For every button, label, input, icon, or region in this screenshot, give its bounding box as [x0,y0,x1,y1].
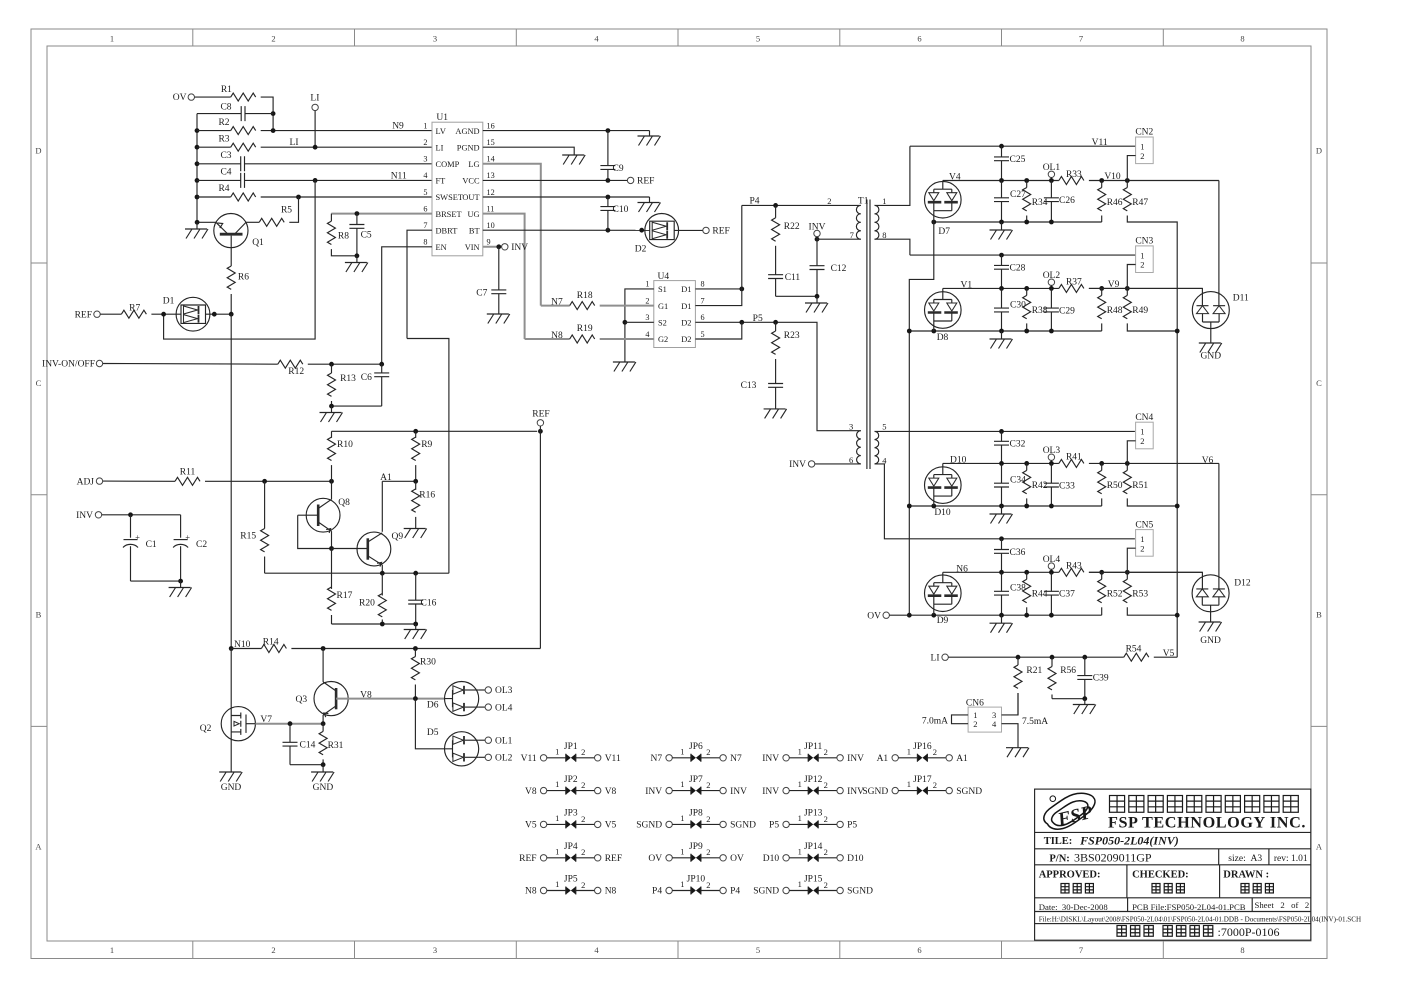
svg-text:6: 6 [423,204,427,213]
svg-text:SGND: SGND [956,787,982,797]
svg-text:2: 2 [1140,436,1144,446]
node cap C32 top [999,429,1004,434]
svg-text:1: 1 [555,779,559,789]
svg-text:GND: GND [1200,636,1221,646]
resistor R13 [331,364,333,373]
wire U4 S1 to ground leg [625,289,654,362]
svg-text:CN4: CN4 [1135,413,1153,423]
node R42 bottom [1024,504,1029,509]
node C14 top [288,721,293,726]
node right bus 2 [1175,504,1180,509]
node R47 top [1125,178,1130,183]
wire U1 EN from below [382,247,432,364]
wire C14 bottom to R31 [290,764,323,766]
svg-text:U1: U1 [436,113,448,123]
svg-text:C13: C13 [741,381,757,391]
REF rail above Q8 [332,430,538,432]
wire U1 BT pin10 row [483,229,650,231]
capacitor C8 [197,113,241,115]
svg-text:C3: C3 [220,151,231,161]
svg-text::7000P-0106: :7000P-0106 [1218,925,1280,939]
svg-text:N8: N8 [605,887,617,897]
svg-text:1: 1 [110,945,114,955]
resistor R33 in mid row [1059,177,1084,185]
node R52 top [1099,570,1104,575]
node R46 top [1099,178,1104,183]
svg-text:1: 1 [680,813,684,823]
svg-text:JP6: JP6 [689,742,703,752]
svg-text:CN2: CN2 [1135,128,1153,138]
svg-text:7: 7 [850,230,854,240]
bottom row section 3 [909,505,1101,507]
diode D2 [635,214,679,255]
svg-text:OV: OV [648,854,662,864]
node R15 top [262,479,267,484]
wire D10 top riser [942,463,944,466]
svg-text:R6: R6 [238,273,249,283]
diode D6 [427,682,479,716]
svg-text:DBRT: DBRT [436,226,458,235]
wire R56 C39 bottom [1052,698,1085,700]
svg-text:R13: R13 [340,374,356,384]
bottom row R17 R20 C16 [332,623,416,625]
jumper JP17 [862,775,982,797]
resistor R19 on G2 row [525,338,570,340]
resistor R15 [264,481,266,528]
svg-text:JP1: JP1 [564,742,578,752]
svg-text:COMP: COMP [436,160,460,169]
wire INV to T1 pin6 [815,463,861,465]
ground below R13 [331,406,333,412]
svg-text:12: 12 [487,188,495,197]
svg-text:R41: R41 [1066,453,1082,463]
node R13 top [329,362,334,367]
resistor R43 in mid row [1059,568,1084,576]
svg-text:R50: R50 [1107,481,1123,491]
svg-text:R38: R38 [1032,306,1048,316]
port OL4 of D6 [479,706,485,708]
svg-text:OV: OV [730,854,744,864]
svg-text:2: 2 [581,747,585,757]
dual diode D10 [925,467,962,518]
svg-text:Q3: Q3 [295,695,307,705]
svg-text:R4: R4 [218,184,229,194]
rail row CN2 [910,145,1136,147]
svg-text:C29: C29 [1059,306,1075,316]
wire D9 top riser [942,572,944,575]
wire UG corner to R19 [524,338,526,341]
svg-text:TILE:: TILE: [1044,836,1073,847]
ground below C39 [1084,699,1086,705]
svg-text:D2: D2 [681,335,691,344]
svg-text:R43: R43 [1066,562,1082,572]
wire R6 to D1 node [230,294,232,314]
svg-text:A1: A1 [956,754,968,764]
svg-text:size: A3: size: A3 [1228,854,1262,864]
svg-text:INV: INV [762,754,779,764]
node C37 bottom [1049,613,1054,618]
node OL1 mid [1049,178,1054,183]
svg-text:V6: V6 [1202,456,1214,466]
svg-text:D: D [1316,146,1322,156]
svg-text:B: B [36,610,42,620]
svg-text:1: 1 [907,779,911,789]
svg-text:3: 3 [849,421,853,431]
wire V9 row to D11 left [1089,288,1203,305]
svg-text:D10: D10 [950,456,967,466]
connector CN4 [1135,413,1153,449]
mid row N6 [943,571,1059,573]
svg-text:SGND: SGND [847,887,873,897]
svg-text:R9: R9 [421,440,432,450]
jumper JP9 [648,842,744,864]
svg-text:+: + [135,532,140,542]
svg-text:INV: INV [76,511,93,521]
wire C11 bottom [776,295,817,297]
capacitor C26 [1050,181,1052,198]
capacitor C6 [381,364,383,373]
wire OV row [889,614,909,616]
svg-text:7: 7 [701,296,705,305]
svg-text:V5: V5 [525,821,537,831]
svg-text:D10: D10 [847,854,864,864]
node R9 top [413,429,418,434]
svg-text:R48: R48 [1107,306,1123,316]
mid row V4 [943,180,1059,182]
node N10 bus [229,646,234,651]
node left bus 2 [907,504,912,509]
wire U1 OUT pin12 row [483,196,650,198]
svg-text:6: 6 [849,455,853,465]
svg-text:Q9: Q9 [392,532,404,542]
svg-text:C4: C4 [220,168,231,178]
transistor Q8 [298,498,350,533]
node Q9 emitter rail [380,571,385,576]
node INV T1 [815,237,820,242]
wire U1 AGND pin16 row [483,130,650,132]
node bus C4 [195,178,200,183]
transistor Q1 [197,214,264,267]
wire INV row [102,514,181,516]
svg-text:2: 2 [581,880,585,890]
svg-text:D1: D1 [681,302,691,311]
node R44 bottom [1024,613,1029,618]
capacitor C12 [816,239,818,266]
svg-text:1: 1 [423,121,427,130]
diode D5 [427,728,479,766]
svg-text:1: 1 [882,196,886,206]
svg-text:R42: R42 [1032,481,1048,491]
node R34 bottom [1024,220,1029,225]
bottom row section 1 [934,221,1102,223]
svg-text:REF: REF [532,410,549,420]
wire A1 down to Q9 collector [381,481,383,532]
capacitor C38 [1001,572,1003,591]
ground AGND [649,131,651,136]
capacitor C5 [356,214,358,225]
svg-text:N7: N7 [730,754,742,764]
node REF rail [538,429,543,434]
svg-text:N7: N7 [650,754,662,764]
svg-text:File:H:\DISKL\Layout\2008\FSP0: File:H:\DISKL\Layout\2008\FSP050-2L04\01… [1039,916,1361,924]
capacitor C34 [1001,463,1003,483]
svg-text:JP13: JP13 [804,809,823,819]
node R31 bottom [321,762,326,767]
svg-text:5: 5 [882,421,886,431]
transistor Q9 [357,532,403,567]
svg-text:Date: 30-Dec-2008: Date: 30-Dec-2008 [1039,902,1109,912]
resistor R49 [1126,288,1128,295]
resistor R21 [1017,657,1019,665]
svg-text:INV: INV [847,754,864,764]
capacitor C13 [768,384,783,388]
svg-text:JP9: JP9 [689,842,703,852]
svg-text:2: 2 [581,814,585,824]
svg-text:R12: R12 [288,367,304,377]
svg-text:INV: INV [762,787,779,797]
capacitor C1 electrolytic [130,515,132,538]
node C12 bottom [815,294,820,299]
node C39 top [1082,655,1087,660]
resistor R23 [775,322,777,331]
node R42 top [1024,461,1029,466]
svg-text:C37: C37 [1059,590,1075,600]
svg-text:R31: R31 [328,741,344,751]
node C29 bottom [1049,329,1054,334]
svg-text:R22: R22 [784,222,800,232]
svg-text:R19: R19 [577,324,593,334]
svg-text:9: 9 [487,238,491,247]
wire CN2 pin2 [1127,156,1135,181]
svg-text:11: 11 [487,204,495,213]
jumper JP6 [650,742,741,764]
resistor R47 [1126,181,1128,188]
wire U4 D1 pin8 row [695,288,741,290]
svg-text:SWSET: SWSET [436,193,463,202]
svg-text:R37: R37 [1066,278,1082,288]
ground OUT [649,197,651,203]
node mid cap C34 [999,461,1004,466]
node R4 R5 junction [296,195,301,200]
U4 pin names and numbers [645,280,704,345]
resistor R3 row to U1 pin2 [197,146,231,148]
svg-text:C34: C34 [1010,476,1026,486]
node R49 top [1125,286,1130,291]
svg-text:GND: GND [313,783,334,793]
svg-text:G2: G2 [658,335,668,344]
jumper JP12 [762,775,864,797]
wire D7 top riser [942,180,944,183]
svg-text:7.0mA: 7.0mA [922,717,948,727]
node C26 bottom [1049,220,1054,225]
wire R17 leg [331,549,333,589]
resistor R22 [775,205,777,217]
ground below R31 [322,765,324,772]
bottom row section 4 [909,614,1101,616]
sheet note chinese [1117,926,1126,937]
ground below C27 [1001,222,1003,230]
node C39 bottom [1082,696,1087,701]
svg-text:R56: R56 [1060,666,1076,676]
node left bus 3 [907,613,912,618]
wire CN6 pin4 to ground [1002,724,1019,748]
svg-text:4: 4 [992,719,997,729]
node gnd C34 [999,504,1004,509]
svg-text:4: 4 [645,330,649,339]
node C6 top [379,362,384,367]
resistor R4 row to U1 pin5 [197,196,231,198]
svg-text:1: 1 [555,813,559,823]
node R38 bottom [1024,329,1029,334]
ground below Q1 emitter bus [196,222,198,229]
svg-text:15: 15 [487,138,495,147]
capacitor C28 [1001,255,1003,265]
svg-text:R3: R3 [218,134,229,144]
node P5 junction [739,320,744,325]
wire D8 top riser [942,288,944,291]
wire CN6 pin3 to R21 [1002,693,1019,715]
svg-text:R5: R5 [281,206,292,216]
svg-text:C16: C16 [421,599,437,609]
wire U1 VCC pin13 row [483,179,628,181]
ground below C5 [356,256,358,263]
svg-text:V8: V8 [525,787,537,797]
svg-text:1: 1 [798,846,802,856]
ground below C7 [487,314,510,324]
resistor R11 [175,477,200,485]
resistor R1 [231,93,256,101]
diode D1 [163,297,210,332]
resistor R14 [261,645,286,653]
svg-text:D5: D5 [427,728,439,738]
wire P5 row to T1 pin3 [776,322,861,430]
wire N10 row [231,648,261,650]
svg-text:JP8: JP8 [689,809,703,819]
svg-text:OV: OV [867,611,881,621]
svg-text:R15: R15 [240,532,256,542]
svg-text:1: 1 [645,280,649,289]
wire R30 V8 to D5 leg [415,699,444,749]
svg-text:JP7: JP7 [689,775,703,785]
svg-text:C: C [36,378,42,388]
resistor R30 [414,649,416,657]
svg-text:JP2: JP2 [564,775,578,785]
svg-text:D8: D8 [937,333,949,343]
dual diode D8 [925,292,962,343]
node R6 bottom [229,312,234,317]
svg-text:R1: R1 [221,85,232,95]
svg-text:R23: R23 [784,331,800,341]
svg-text:C33: C33 [1059,482,1075,492]
svg-text:OV: OV [173,93,187,103]
svg-text:OL2: OL2 [495,754,513,764]
svg-text:JP14: JP14 [804,842,823,852]
svg-text:6: 6 [917,34,921,44]
wire V6 to D12 right [1218,463,1220,589]
wire U4 D2 pin6 row / P5 [695,321,775,323]
wire CN3 pin2 [1127,265,1135,289]
svg-text:R18: R18 [577,291,593,301]
capacitor C10 [607,197,609,207]
wire DBRT leg down [407,339,449,574]
svg-text:CN5: CN5 [1135,520,1153,530]
wire T1 pin8 down to rail2 [875,239,910,255]
svg-text:3: 3 [423,155,427,164]
svg-text:8: 8 [1240,34,1244,44]
svg-text:R49: R49 [1132,306,1148,316]
svg-text:FT: FT [436,177,446,186]
svg-text:P5: P5 [753,314,763,324]
wire CN5 pin2 [1127,548,1135,572]
capacitor C37 [1050,572,1052,591]
svg-text:JP4: JP4 [564,842,578,852]
svg-text:D7: D7 [938,227,950,237]
node R44 top [1024,570,1029,575]
node R53 top [1125,570,1130,575]
svg-text:C28: C28 [1010,264,1026,274]
node gnd C27 [999,220,1004,225]
wire base row to Q9 [332,548,368,550]
svg-text:LI: LI [290,138,299,148]
svg-text:1: 1 [798,813,802,823]
ground below R16 [404,529,427,539]
svg-text:Q1: Q1 [252,238,264,248]
svg-text:B: B [1316,610,1322,620]
capacitor C14 [289,724,291,743]
svg-text:2: 2 [824,747,828,757]
svg-text:APPROVED:: APPROVED: [1039,870,1101,881]
ground below C16 [415,624,417,630]
svg-text:SGND: SGND [862,787,888,797]
svg-text:C5: C5 [361,231,372,241]
resistor R53 [1126,572,1128,579]
node R13 bottom [329,404,334,409]
node bus R3 [195,145,200,150]
svg-text:2: 2 [973,719,977,729]
wire R1 right to C8 node [261,97,273,131]
svg-text:LG: LG [468,160,479,169]
svg-text:VIN: VIN [465,243,480,252]
ground below C12 [816,296,818,303]
jumper JP14 [763,842,864,864]
wire U4 D2 pin5 row [695,322,741,339]
svg-text:1: 1 [555,879,559,889]
port OL3 of D6 [479,689,485,691]
svg-text:D10: D10 [934,508,951,518]
svg-text:CN6: CN6 [966,698,984,708]
connector CN3 [1135,237,1153,273]
svg-text:5: 5 [756,945,760,955]
svg-text:P/N:: P/N: [1049,853,1069,864]
capacitor C16 [415,573,417,600]
wire P4 row [742,204,861,206]
wire R49 bottom to right bus [1127,323,1177,331]
mid row V1 [943,287,1059,289]
wire Q8 emitter down [331,531,333,548]
resistor R50 [1101,463,1103,470]
svg-text:BRSET: BRSET [436,210,462,219]
svg-text:CN3: CN3 [1135,237,1153,247]
jumper JP8 [636,809,756,831]
svg-text:C36: C36 [1010,548,1026,558]
svg-text:R14: R14 [263,637,279,647]
svg-text:5: 5 [701,330,705,339]
svg-text:REF: REF [75,310,92,320]
svg-text:JP15: JP15 [804,875,823,885]
svg-text:C9: C9 [613,164,624,174]
wire N11 down to D1 net [164,180,316,339]
capacitor C2 electrolytic [180,515,182,538]
